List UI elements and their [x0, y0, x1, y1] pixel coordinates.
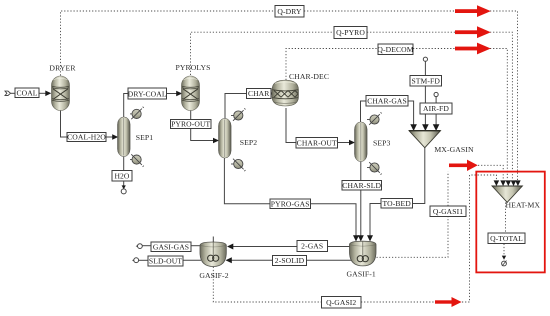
- end symbol Q-TOTAL: [502, 261, 507, 266]
- heat label Q-TOTAL: [488, 233, 525, 244]
- valve symbol SEP1 top: [130, 107, 144, 119]
- stream label AIR-FD: [420, 103, 452, 114]
- stream 2-SOLID wire: [307, 259, 352, 261]
- stream label COAL: [15, 88, 39, 98]
- svg-text:Q-PYRO: Q-PYRO: [336, 28, 365, 37]
- red arrow Q-PYRO export: [455, 26, 491, 38]
- stream CHAR-OUT wire: [286, 108, 296, 143]
- svg-text:AIR-FD: AIR-FD: [423, 104, 449, 113]
- heat stream Q-PYRO wire: [191, 32, 335, 75]
- stream SLD-OUT wire: [183, 259, 201, 261]
- heat stream Q-GASI1 wire: [377, 217, 449, 258]
- arrowhead COAL-H2O into SEP1: [112, 134, 118, 140]
- svg-text:DRY-COAL: DRY-COAL: [128, 89, 167, 98]
- stream PYRO-GAS wire: [224, 158, 270, 204]
- svg-text:Q-GASI2: Q-GASI2: [326, 298, 356, 307]
- stream label CHAR-GAS: [366, 96, 408, 107]
- red arrow Q-GASI1 export: [449, 160, 478, 171]
- end symbol SLD-OUT: [134, 258, 139, 263]
- stream label 2-SOLID: [273, 256, 307, 266]
- svg-text:Q-DRY: Q-DRY: [277, 7, 302, 16]
- heat label Q-GASI1: [430, 206, 466, 217]
- arrowhead STM-FD into MX-GASIN: [422, 124, 429, 131]
- svg-text:CHAR-SLD: CHAR-SLD: [342, 181, 381, 190]
- stream label COAL-H2O: [67, 133, 106, 142]
- svg-text:2-GAS: 2-GAS: [301, 242, 323, 251]
- stream COAL wire: [10, 92, 15, 94]
- block GASIF-1 (RGibbs): [350, 241, 377, 266]
- feed symbol AIR-FD: [434, 92, 438, 96]
- stream TO-BED wire: [413, 148, 425, 204]
- arrowhead SLD-OUT end: [132, 258, 137, 263]
- svg-text:CHAR-OUT: CHAR-OUT: [297, 139, 337, 148]
- svg-text:CHAR: CHAR: [248, 89, 270, 98]
- valve symbol SEP3 top: [367, 113, 381, 125]
- heat label Q-PYRO: [334, 27, 367, 39]
- stream AIR-FD wire: [435, 97, 437, 103]
- arrowhead GASI-GAS end: [136, 244, 141, 249]
- stream label GASI-GAS: [151, 242, 191, 252]
- svg-text:SEP3: SEP3: [373, 139, 391, 148]
- block MX-GASIN (mixer cone): [409, 131, 441, 148]
- heat inlet arrowheads on HEAT-MX: [494, 180, 500, 186]
- stream label H2O: [112, 171, 132, 182]
- svg-text:PYRO-GAS: PYRO-GAS: [271, 200, 310, 209]
- stream label PYRO-GAS: [270, 199, 311, 209]
- stream label DRY-COAL: [128, 88, 167, 99]
- heat label Q-DRY: [275, 6, 304, 18]
- arrowhead CHAR-GAS into MX-GASIN: [410, 124, 417, 131]
- stream label CHAR-SLD: [342, 181, 382, 191]
- heat label Q-DECOM: [378, 44, 413, 55]
- arrowhead PYRO-OUT into SEP2: [213, 138, 219, 144]
- stream 2-GAS wire: [328, 246, 350, 248]
- svg-text:Q-GASI1: Q-GASI1: [433, 207, 463, 216]
- svg-text:PYROLYS: PYROLYS: [176, 63, 211, 72]
- svg-text:SLD-OUT: SLD-OUT: [149, 257, 182, 266]
- arrowhead Q-TOTAL end: [502, 256, 506, 260]
- stream PYRO-OUT wire: [190, 111, 192, 120]
- stream label CHAR: [247, 89, 272, 99]
- stream label PYRO-OUT: [171, 120, 212, 129]
- svg-text:2-SOLID: 2-SOLID: [275, 256, 305, 265]
- heat stream Q-DECOM wire: [286, 49, 378, 81]
- svg-text:STM-FD: STM-FD: [411, 76, 440, 85]
- heat stream Q-TOTAL wire: [505, 203, 507, 234]
- stream GASI-GAS wire: [191, 245, 200, 247]
- block CHAR-DEC (RYield barrel): [272, 80, 299, 106]
- stream label TO-BED: [381, 199, 413, 209]
- valve symbol SEP2 bottom: [231, 159, 245, 171]
- valve symbol SEP3 bottom: [367, 162, 381, 174]
- block SEP3 (separator column): [355, 122, 368, 162]
- heat stream Q-DRY wire: [61, 11, 276, 76]
- valve symbol SEP2 top: [231, 109, 245, 121]
- arrowhead COAL into DRYER: [45, 91, 51, 97]
- block DRYER (RStoic capsule): [52, 76, 70, 111]
- block HEAT-MX (mixer cone): [492, 180, 522, 202]
- block SEP1 (separator column): [118, 117, 131, 157]
- arrowhead CHAR-OUT into SEP3: [349, 140, 355, 146]
- heat stream Q-GASI2 wire: [213, 267, 321, 302]
- svg-text:MX-GASIN: MX-GASIN: [434, 145, 474, 154]
- svg-text:TO-BED: TO-BED: [383, 199, 412, 208]
- svg-text:CHAR-DEC: CHAR-DEC: [289, 72, 329, 81]
- block GASIF-2 top stem: [212, 237, 214, 243]
- arrowhead AIR-FD into MX-GASIN: [433, 124, 440, 131]
- heat label Q-GASI2: [322, 297, 362, 309]
- svg-text:H2O: H2O: [114, 172, 129, 181]
- stream label CHAR-OUT: [296, 138, 338, 149]
- arrowhead CHAR into CHAR-DEC: [270, 92, 274, 96]
- red arrow Q-DRY export: [455, 5, 491, 17]
- red highlight rectangle around HEAT-MX: [476, 172, 545, 273]
- stream DRY-COAL wire: [124, 94, 128, 118]
- feed symbol COAL: [5, 91, 11, 95]
- svg-text:SEP1: SEP1: [136, 133, 154, 142]
- svg-text:Q-DECOM: Q-DECOM: [377, 45, 413, 54]
- block SEP2 (separator column): [219, 119, 232, 159]
- end symbol H2O: [121, 189, 126, 194]
- arrowhead H2O end: [122, 185, 126, 189]
- arrowhead 2-GAS into GASIF-2: [227, 244, 233, 250]
- stream label SLD-OUT: [148, 256, 183, 266]
- svg-text:GASIF-1: GASIF-1: [347, 270, 376, 279]
- red arrow Q-DECOM export: [455, 43, 491, 55]
- arrowhead CHAR-SLD into GASIF-1: [358, 235, 364, 241]
- stream label STM-FD: [410, 76, 442, 87]
- arrowhead 2-SOLID into GASIF-2: [226, 257, 232, 263]
- svg-text:PYRO-OUT: PYRO-OUT: [171, 120, 210, 129]
- arrowhead DRY-COAL into PYROLYS: [176, 91, 182, 97]
- stream CHAR wire: [225, 94, 247, 119]
- red arrow Q-GASI2 export: [435, 297, 462, 307]
- stream label 2-GAS: [297, 241, 328, 252]
- stream STM-FD wire: [424, 62, 426, 76]
- block GASIF-2 (RGibbs): [200, 242, 226, 267]
- end symbol GASI-GAS: [138, 244, 143, 249]
- stream H2O wire: [123, 157, 125, 171]
- stream CHAR-SLD wire: [360, 162, 362, 181]
- svg-text:COAL: COAL: [16, 89, 37, 98]
- svg-text:GASIF-2: GASIF-2: [199, 271, 228, 280]
- svg-text:CHAR-GAS: CHAR-GAS: [367, 97, 407, 106]
- svg-text:COAL-H2O: COAL-H2O: [67, 133, 106, 142]
- svg-text:GASI-GAS: GASI-GAS: [153, 243, 189, 252]
- arrowhead PYRO-GAS into GASIF-1: [353, 235, 359, 241]
- arrowhead TO-BED into GASIF-1: [367, 235, 373, 241]
- block PYROLYS (RStoic capsule): [182, 76, 200, 111]
- svg-text:HEAT-MX: HEAT-MX: [506, 201, 541, 210]
- feed symbol STM-FD: [423, 57, 427, 61]
- stream COAL-H2O wire: [61, 111, 68, 138]
- svg-text:Q-TOTAL: Q-TOTAL: [490, 234, 523, 243]
- svg-text:DRYER: DRYER: [49, 64, 76, 73]
- stream CHAR-GAS wire: [361, 101, 367, 122]
- valve symbol SEP1 bottom: [130, 154, 144, 166]
- svg-text:SEP2: SEP2: [240, 138, 258, 147]
